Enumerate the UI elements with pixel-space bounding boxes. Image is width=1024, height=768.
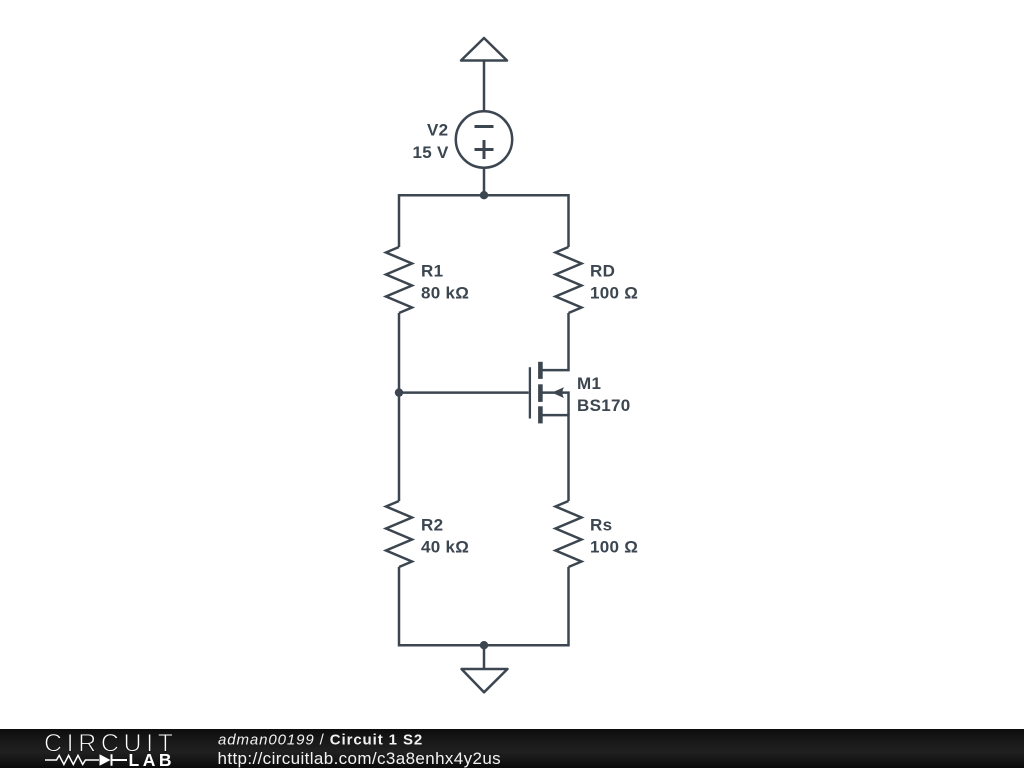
transistor M1 channel middle bar bbox=[538, 384, 543, 402]
wire bottom rail bbox=[399, 567, 569, 645]
svg-text:V2: V2 bbox=[427, 120, 448, 139]
svg-text:Rs: Rs bbox=[590, 515, 612, 534]
transistor M1 channel top bar bbox=[538, 362, 543, 379]
resistor Rs bbox=[556, 501, 582, 567]
power flag VCC bbox=[461, 38, 507, 61]
svg-text:R2: R2 bbox=[421, 515, 443, 534]
svg-text:R1: R1 bbox=[421, 261, 443, 280]
ground bbox=[462, 669, 508, 692]
wire top rail bbox=[399, 195, 569, 247]
logo squiggle resistor bbox=[45, 755, 99, 764]
wire M1 source to Rs bbox=[541, 415, 569, 501]
resistor RD bbox=[556, 247, 582, 313]
transistor M1 bulk arrow bbox=[552, 387, 564, 398]
wire RD to M1 drain bbox=[541, 313, 569, 370]
svg-text:RD: RD bbox=[590, 261, 615, 280]
resistor R2 bbox=[386, 501, 412, 567]
svg-text:40 kΩ: 40 kΩ bbox=[421, 538, 469, 557]
wire flag to V2 bbox=[483, 61, 486, 112]
wire gate bbox=[399, 391, 529, 394]
transistor M1 gate bar bbox=[529, 367, 531, 418]
wire M1 bulk bbox=[541, 393, 569, 416]
svg-text:LAB: LAB bbox=[129, 750, 175, 768]
svg-text:80 kΩ: 80 kΩ bbox=[421, 284, 469, 303]
V2 plus sign bbox=[475, 140, 494, 159]
V2 minus sign bbox=[475, 125, 494, 128]
logo diode bbox=[100, 754, 111, 766]
svg-text:http://circuitlab.com/c3a8enhx: http://circuitlab.com/c3a8enhx4y2us bbox=[218, 749, 502, 768]
transistor M1 channel bottom bar bbox=[538, 406, 543, 423]
svg-text:100 Ω: 100 Ω bbox=[590, 538, 638, 557]
node top junction bbox=[480, 191, 488, 199]
voltage source V2 circle bbox=[456, 111, 512, 167]
resistor R1 bbox=[386, 247, 412, 313]
svg-text:15 V: 15 V bbox=[413, 143, 450, 162]
node bottom junction bbox=[480, 641, 488, 649]
wire R1 to R2 bbox=[398, 313, 401, 501]
wire V2 to top node bbox=[483, 168, 486, 196]
node gate junction bbox=[395, 388, 403, 396]
svg-text:adman00199 / Circuit 1 S2: adman00199 / Circuit 1 S2 bbox=[218, 731, 423, 748]
wire ground stub bbox=[483, 645, 486, 669]
svg-text:100 Ω: 100 Ω bbox=[590, 284, 638, 303]
svg-text:BS170: BS170 bbox=[577, 396, 630, 415]
svg-text:M1: M1 bbox=[577, 374, 601, 393]
logo diode cathode bar bbox=[112, 754, 128, 766]
